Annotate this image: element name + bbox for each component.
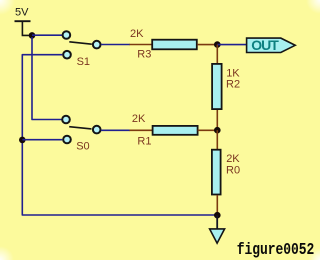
svg-text:2K: 2K [130, 28, 144, 40]
ground [210, 229, 225, 243]
wire S1 pole to R3 [101, 44, 130, 46]
svg-text:2K: 2K [226, 153, 240, 165]
lead R0 bottom to node G [216, 195, 218, 215]
svg-text:R1: R1 [137, 135, 151, 147]
lead R1 left [130, 129, 153, 131]
svg-text:S0: S0 [76, 140, 89, 152]
lead R2 top [216, 45, 218, 64]
svg-text:5V: 5V [15, 7, 29, 19]
svg-text:R3: R3 [137, 48, 151, 60]
lead R1 right to node M [198, 129, 217, 131]
wire node A to S0 top contact [32, 37, 62, 120]
wire node B to S0 bottom contact [22, 139, 62, 141]
lead R3 left [130, 44, 153, 46]
lead R0 top [216, 130, 218, 149]
svg-text:R2: R2 [226, 79, 240, 91]
resistor R1 [153, 126, 198, 135]
svg-text:figure0052: figure0052 [237, 242, 315, 260]
power symbol 5V rail [15, 21, 32, 35]
wire node A to S1 top contact [32, 34, 62, 36]
svg-text:2K: 2K [132, 113, 146, 125]
junction node OUT (R3/R2/OUT) [214, 41, 221, 48]
wire S0 pole to R1 [101, 129, 130, 131]
svg-text:S1: S1 [77, 56, 90, 68]
wire node OUT to OUT connector [217, 44, 246, 46]
connector OUT [247, 38, 296, 52]
wire node G to ground symbol [216, 215, 218, 229]
svg-text:R0: R0 [226, 164, 240, 176]
resistor R2 [212, 64, 222, 109]
junction node G (ground) [214, 212, 221, 219]
junction node A (5V branch) [29, 32, 36, 39]
junction node B (left rail / S0 bottom) [19, 137, 26, 144]
switch S0 [62, 116, 100, 144]
lead R3 right to node OUT [197, 44, 217, 46]
junction node M (R1/R2/R0) [214, 127, 221, 134]
svg-text:OUT: OUT [251, 37, 279, 53]
lead R2 bottom to node M [216, 110, 218, 130]
resistor R3 [152, 40, 197, 50]
switch S1 [63, 31, 101, 58]
wire S1 bottom contact to ground rail [22, 55, 216, 215]
resistor R0 [212, 150, 221, 195]
